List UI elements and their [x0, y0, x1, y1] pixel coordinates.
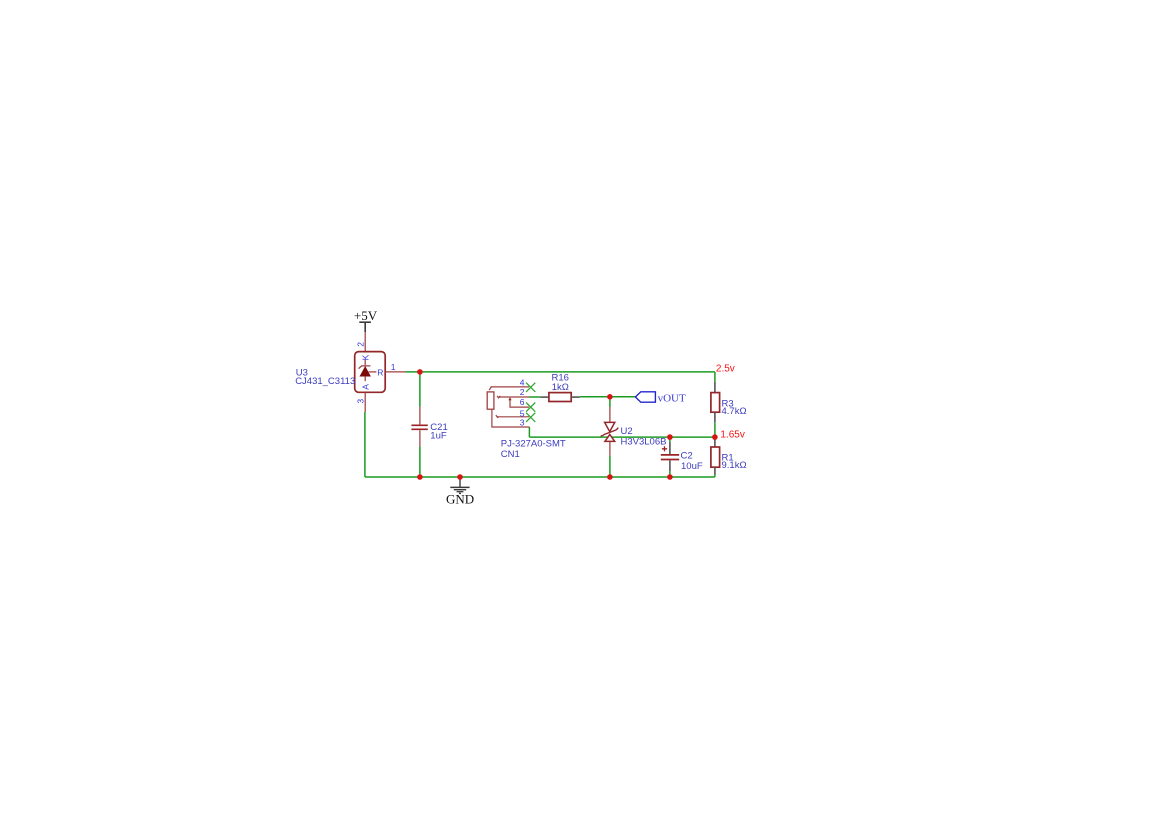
svg-text:6: 6 [520, 397, 525, 407]
wire R1 to bottom rail [714, 475, 716, 478]
svg-text:vOUT: vOUT [658, 393, 686, 405]
junction at rail / GND [457, 474, 463, 480]
svg-text:2: 2 [356, 342, 366, 347]
no-connect X pin 6 [526, 403, 535, 412]
wire U2 top [609, 397, 611, 407]
svg-text:A: A [360, 384, 370, 390]
wire 2.5v top rail [406, 371, 715, 373]
no-connect X pin 4 [526, 383, 535, 392]
wire right rail top (2.5v to R3) [714, 372, 716, 382]
diode U2 (TVS H3V3L06B) [601, 407, 619, 456]
power flag +5V [354, 308, 378, 332]
svg-text:C2: C2 [681, 451, 693, 462]
svg-text:4.7kΩ: 4.7kΩ [722, 406, 747, 417]
svg-text:CN1: CN1 [501, 449, 520, 460]
U3 pin 1 wire [385, 371, 406, 373]
svg-text:CJ431_C3113: CJ431_C3113 [295, 376, 355, 387]
wire C21 top [419, 372, 421, 407]
resistor R1 [711, 439, 720, 474]
wire U2 bottom [609, 456, 611, 477]
wire GND bottom rail [365, 476, 715, 478]
junction at 1.65v / C2 [667, 434, 673, 440]
svg-text:1kΩ: 1kΩ [552, 382, 569, 393]
wire C21 bottom [419, 447, 421, 478]
svg-text:1.65v: 1.65v [720, 429, 744, 440]
svg-text:1uF: 1uF [430, 431, 447, 442]
junction at rail / C2 [667, 474, 673, 480]
wire 1.65v node to R1 [714, 437, 716, 439]
svg-text:9.1kΩ: 9.1kΩ [722, 460, 747, 471]
capacitor C21 [411, 407, 427, 447]
svg-text:3: 3 [520, 418, 525, 428]
junction at rail / C21 [417, 474, 423, 480]
ground GND [446, 477, 474, 506]
svg-text:2: 2 [520, 387, 525, 397]
wire CN1 pin2 to R16 [529, 396, 540, 398]
svg-text:H3V3L06B: H3V3L06B [621, 436, 667, 447]
svg-text:3: 3 [356, 399, 366, 404]
svg-text:2.5v: 2.5v [716, 364, 735, 375]
capacitor C2 (polarized) [661, 442, 679, 471]
junction at 1.65v / R3-R1 [712, 434, 718, 440]
connector CN1 body (audio jack PJ-327A0-SMT) [487, 387, 529, 427]
svg-text:GND: GND [446, 492, 474, 507]
svg-text:K: K [360, 354, 370, 360]
svg-text:1: 1 [391, 362, 396, 372]
U3 pin 2 wire [364, 332, 366, 352]
net port vOUT [635, 392, 686, 405]
svg-text:4: 4 [520, 378, 525, 388]
no-connect X pin 5 [526, 413, 535, 422]
resistor R3 [711, 382, 720, 422]
resistor R16 [540, 393, 580, 402]
wire left vertical (U3 anode to rail) [364, 412, 366, 477]
wire R3 to 1.65v node [714, 422, 716, 437]
U3 pin 3 wire [364, 392, 366, 412]
wire 1.65v rail [529, 436, 715, 438]
wire C2 bottom stub [669, 471, 671, 477]
wire C2 top stub [669, 437, 671, 442]
svg-text:10uF: 10uF [681, 461, 703, 472]
junction at 2.5v / C21 [417, 369, 423, 375]
junction at rail / U2 [607, 474, 613, 480]
junction at vOUT / U2 [607, 394, 613, 400]
wire CN1 pin3 drop [528, 427, 530, 437]
op-amp U3 body (CJ431 shunt reference) [355, 352, 386, 393]
svg-text:+5V: +5V [354, 308, 378, 323]
svg-text:R: R [377, 367, 383, 377]
wire R16 to vOUT [580, 396, 636, 398]
